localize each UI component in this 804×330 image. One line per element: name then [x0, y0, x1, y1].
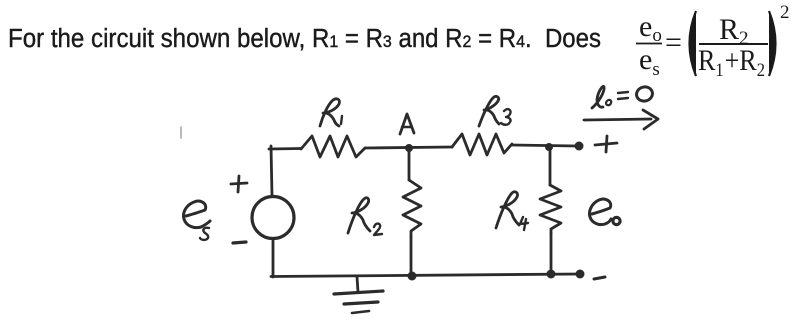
wire node B down to R4 — [549, 149, 552, 185]
label eo — [589, 199, 620, 225]
label es — [183, 201, 210, 240]
wire top-left to R1 — [269, 147, 301, 150]
svg-text:2: 2 — [780, 2, 790, 23]
wire R3 to node B — [512, 145, 577, 146]
label R4 — [496, 192, 528, 230]
junction dot R4 bottom — [547, 270, 556, 279]
junction dot R2 bottom — [408, 272, 417, 281]
node B top of R4 — [545, 143, 553, 151]
wire R2 to bottom rail — [410, 237, 413, 276]
resistor R2 — [403, 180, 421, 237]
resistor R1 — [301, 136, 365, 157]
label + output — [595, 136, 617, 152]
svg-text:eo: eo — [639, 10, 662, 46]
label - output — [594, 277, 605, 279]
bottom rail wire — [271, 274, 580, 277]
equation eo/es = (R2/(R1+R2))^2 — [636, 2, 790, 81]
resistor R3 — [452, 134, 512, 155]
wire top-left vertical — [271, 146, 272, 196]
stray mark — [180, 127, 182, 138]
svg-text:R1+R2: R1+R2 — [698, 44, 765, 81]
wire R4 to bottom rail — [550, 233, 553, 273]
svg-text:=: = — [665, 26, 682, 59]
node A — [405, 144, 413, 152]
label R3 — [479, 96, 511, 126]
svg-text:R1 = R3 and R2 = R4. Does: R1 = R3 and R2 = R4. Does — [312, 25, 601, 53]
output - terminal dot — [576, 270, 585, 279]
svg-text:For the circuit shown below,: For the circuit shown below, — [8, 25, 312, 53]
label A — [400, 114, 414, 134]
source polarity - — [233, 242, 246, 243]
source polarity + — [231, 176, 247, 192]
output + terminal dot — [575, 142, 584, 151]
voltage source es circle — [252, 197, 294, 239]
ground — [334, 277, 383, 313]
wire R1 to node A and on — [365, 147, 452, 148]
label io = 0 — [592, 85, 654, 108]
wire source bottom to rail — [272, 239, 275, 277]
label R1 — [320, 99, 342, 126]
circuit drawing — [181, 85, 658, 313]
svg-text:es: es — [639, 43, 660, 80]
wire node A down to R2 — [408, 150, 411, 180]
label R2 — [348, 198, 382, 235]
arrow io — [584, 110, 658, 129]
resistor R4 — [540, 185, 561, 233]
